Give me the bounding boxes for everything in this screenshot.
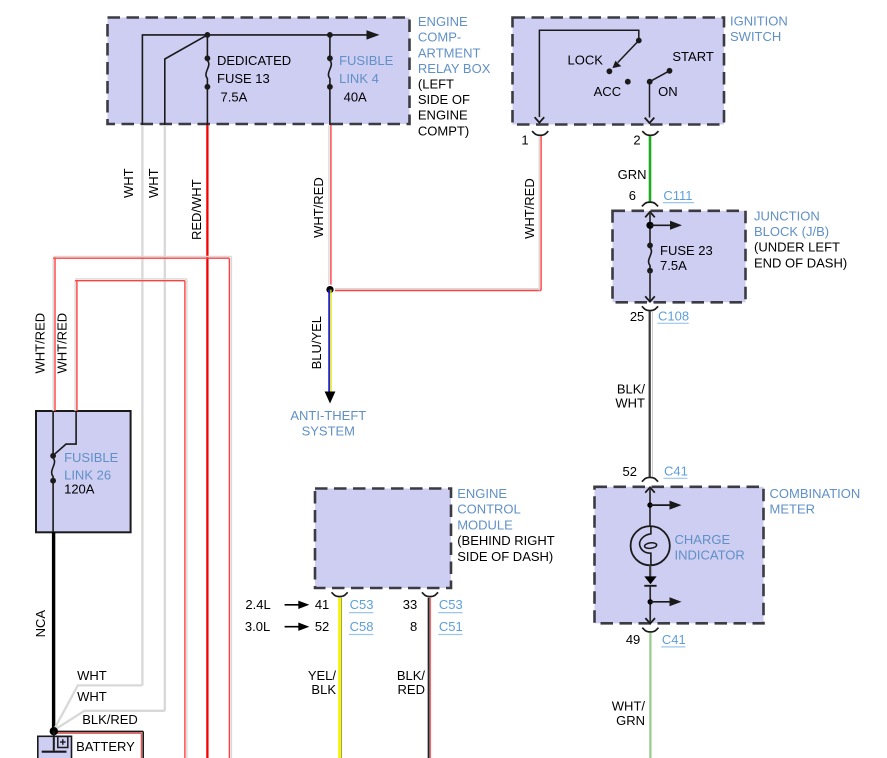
wire WHT/GRN <box>649 633 651 758</box>
wire WHT/RED far-left branch B <box>75 279 187 758</box>
label BLK/WHT <box>615 382 645 411</box>
svg-text:40A: 40A <box>344 90 367 105</box>
svg-text:COMPT): COMPT) <box>418 123 469 138</box>
svg-text:INDICATOR: INDICATOR <box>675 548 745 563</box>
svg-text:SIDE OF DASH): SIDE OF DASH) <box>457 549 553 564</box>
svg-text:BATTERY: BATTERY <box>76 739 135 754</box>
label COMBINATION METER heading <box>770 486 861 517</box>
wire meter vertical to bulb <box>649 487 651 527</box>
svg-text:BLOCK (J/B): BLOCK (J/B) <box>754 224 829 239</box>
svg-text:DEDICATED: DEDICATED <box>217 53 291 68</box>
label 2.4L with arrow <box>245 597 309 612</box>
fusible link 26 box <box>36 411 131 532</box>
svg-text:JUNCTION: JUNCTION <box>754 209 820 224</box>
wire bulb to diode <box>649 565 651 577</box>
node bus junction 2 <box>327 32 333 38</box>
svg-text:2: 2 <box>633 133 640 148</box>
label 3.0L with arrow <box>245 619 309 634</box>
svg-text:ENGINE: ENGINE <box>457 486 507 501</box>
contact ON <box>647 79 653 85</box>
svg-text:33: 33 <box>403 597 417 612</box>
svg-text:BLU/YEL: BLU/YEL <box>309 316 324 369</box>
connector C53 link right <box>438 597 462 613</box>
svg-text:25: 25 <box>630 309 644 324</box>
connector C111 link <box>663 188 694 203</box>
wire junction block vertical lower <box>649 271 651 302</box>
wire NCA <box>52 532 55 731</box>
svg-text:WHT: WHT <box>77 689 107 704</box>
connector C53 link left <box>349 597 373 613</box>
arrow up into combination meter (chevron) <box>645 487 655 492</box>
arrow meter tap 1 right <box>650 501 682 510</box>
svg-text:C58: C58 <box>350 619 374 634</box>
svg-text:METER: METER <box>770 501 816 516</box>
node ignition pivot <box>636 38 642 44</box>
wire WHT column 2 <box>164 125 166 711</box>
label JUNCTION BLOCK heading <box>754 209 847 271</box>
label IGNITION SWITCH heading <box>730 14 788 44</box>
wire WHT/RED vertical to ignition pin 1 <box>539 136 541 291</box>
svg-text:WHT: WHT <box>121 168 136 198</box>
svg-text:WHT: WHT <box>146 168 161 198</box>
engine compartment relay box <box>108 18 410 125</box>
svg-text:2.4L: 2.4L <box>245 597 270 612</box>
engine control module box <box>315 489 451 589</box>
svg-text:WHT/RED: WHT/RED <box>311 177 326 238</box>
wire bus in relay box <box>142 35 371 125</box>
arrow junction block tap right <box>650 221 682 230</box>
connector C108 link <box>657 309 689 324</box>
svg-text:SYSTEM: SYSTEM <box>302 424 355 439</box>
wire WHT/RED pair from fusible link 4 <box>329 125 331 290</box>
node bus junction 1 <box>205 32 211 38</box>
connector cup pin 2 <box>642 131 658 135</box>
label FUSE 23 7.5A <box>660 243 713 273</box>
node meter tap 1 <box>647 502 652 507</box>
contact START <box>667 68 673 74</box>
wire diagonal branch to second WHT <box>165 35 208 125</box>
fuse fusible link 4 <box>327 55 333 89</box>
node battery junction <box>50 727 58 735</box>
wire diode to tap 2 <box>649 586 651 622</box>
arrow meter tap 2 right <box>650 597 681 606</box>
arrow up into junction block (chevron) <box>645 212 655 217</box>
svg-text:NCA: NCA <box>33 610 48 638</box>
label ENGINE COMPARTMENT RELAY BOX heading <box>418 14 491 138</box>
label BLK/RED from ECM <box>397 668 426 697</box>
svg-text:7.5A: 7.5A <box>221 90 248 105</box>
arrow BLU/YEL to anti-theft <box>325 392 336 404</box>
svg-text:C53: C53 <box>439 597 463 612</box>
ignition switch box <box>513 18 725 125</box>
svg-text:3.0L: 3.0L <box>245 619 270 634</box>
fuse fusible link 26 <box>50 453 56 484</box>
svg-text:WHT: WHT <box>615 396 645 411</box>
svg-text:C41: C41 <box>664 464 688 479</box>
svg-text:52: 52 <box>315 619 329 634</box>
connector cap above junction block <box>642 202 658 206</box>
wire WHT/RED horizontal to ignition pin 1 <box>329 289 541 291</box>
wire WHT 2 to battery <box>55 711 165 730</box>
node junction block tap <box>646 222 653 229</box>
svg-text:C41: C41 <box>662 632 686 647</box>
charge indicator bulb <box>631 526 670 565</box>
svg-text:YEL/: YEL/ <box>308 668 337 683</box>
svg-text:41: 41 <box>315 597 329 612</box>
wire into fusible link 26 right with jog <box>55 411 76 454</box>
node BLU/YEL junction <box>326 285 335 294</box>
connector cup ECM pin 41 <box>332 592 348 596</box>
wire BLK/WHT <box>650 311 653 477</box>
connector cup ECM pin 33 <box>422 592 438 596</box>
svg-text:ENGINE: ENGINE <box>418 108 468 123</box>
connector C58 link <box>349 619 373 635</box>
label ENGINE CONTROL MODULE heading <box>457 486 555 564</box>
connector C51 link <box>438 619 462 635</box>
wire fusible link 26 out <box>52 481 54 533</box>
svg-text:C111: C111 <box>663 188 692 203</box>
svg-text:RED: RED <box>398 682 425 697</box>
svg-text:FUSIBLE: FUSIBLE <box>64 450 119 465</box>
svg-text:(BEHIND RIGHT: (BEHIND RIGHT <box>457 533 555 548</box>
wire fusible link 4 out <box>329 87 331 125</box>
label FUSIBLE LINK 4 40A <box>339 53 394 105</box>
wire BLU/YEL <box>329 290 331 392</box>
svg-text:ENGINE: ENGINE <box>418 14 468 29</box>
junction block box <box>613 211 746 302</box>
wire fuse13 feed <box>206 35 208 58</box>
label WHT/GRN <box>612 699 646 728</box>
wire fusible link 4 feed <box>329 35 331 58</box>
svg-text:CHARGE: CHARGE <box>675 532 731 547</box>
svg-text:FUSE 13: FUSE 13 <box>217 71 270 86</box>
battery symbol <box>42 731 68 752</box>
svg-text:FUSE 23: FUSE 23 <box>660 243 713 258</box>
svg-text:WHT/RED: WHT/RED <box>522 178 537 239</box>
node meter tap 2 <box>648 599 653 604</box>
svg-text:ACC: ACC <box>594 84 621 99</box>
combination meter box <box>595 487 764 624</box>
svg-text:49: 49 <box>626 632 640 647</box>
svg-text:CONTROL: CONTROL <box>457 502 521 517</box>
wire ignition feed from pin 1 <box>539 30 638 117</box>
svg-text:ON: ON <box>658 84 678 99</box>
connector C41 link top <box>663 464 687 479</box>
svg-text:SIDE OF: SIDE OF <box>418 92 470 107</box>
wire junction block vertical upper <box>649 212 651 246</box>
connector cap above combination meter <box>642 477 658 481</box>
arrow down combination meter exit (chevron) <box>645 618 655 623</box>
wire BLK/RED from ECM <box>429 598 431 758</box>
wire BLK/RED to battery <box>54 731 143 758</box>
label FUSIBLE LINK 26 120A <box>64 450 119 497</box>
svg-text:GRN: GRN <box>616 713 645 728</box>
wire into fusible link 26 left <box>52 411 54 456</box>
wire RED/WHT column <box>206 125 208 758</box>
svg-text:FUSIBLE: FUSIBLE <box>339 53 394 68</box>
contact ACC <box>625 79 631 85</box>
arrow down at pin 2 (chevron) <box>645 118 655 123</box>
svg-text:BLK/: BLK/ <box>617 382 646 397</box>
svg-text:WHT: WHT <box>77 668 107 683</box>
label DEDICATED FUSE 13 7.5A <box>217 53 291 105</box>
svg-text:IGNITION: IGNITION <box>730 14 788 29</box>
label YEL/BLK <box>308 668 337 697</box>
fuse F13 dedicated fuse 13 <box>205 55 211 89</box>
wire WHT 1 to battery <box>54 685 143 730</box>
battery box <box>38 736 72 758</box>
contact LOCK <box>607 68 613 74</box>
svg-text:COMBINATION: COMBINATION <box>770 486 861 501</box>
wire WHT column 1 <box>141 125 143 685</box>
svg-text:(LEFT: (LEFT <box>418 77 454 92</box>
svg-text:LINK 4: LINK 4 <box>339 71 379 86</box>
svg-text:WHT/RED: WHT/RED <box>32 313 47 374</box>
diode D1 <box>644 576 656 585</box>
bus arrowhead <box>367 30 380 39</box>
svg-text:GRN: GRN <box>618 167 647 182</box>
connector cup below junction block <box>642 306 658 310</box>
svg-text:C108: C108 <box>658 309 689 324</box>
wire YEL/BLK <box>340 598 342 758</box>
svg-text:1: 1 <box>521 133 528 148</box>
svg-text:BLK: BLK <box>311 682 336 697</box>
svg-text:120A: 120A <box>64 482 95 497</box>
svg-text:WHT/: WHT/ <box>612 699 646 714</box>
svg-text:8: 8 <box>410 619 417 634</box>
wire ON to pin 2 <box>649 82 651 118</box>
svg-text:COMP-: COMP- <box>418 30 461 45</box>
arrow down junction block exit (chevron) <box>645 296 655 301</box>
svg-text:LOCK: LOCK <box>567 53 603 68</box>
connector cup below combination meter <box>642 628 658 632</box>
svg-text:START: START <box>672 49 713 64</box>
svg-text:52: 52 <box>623 464 637 479</box>
svg-text:ARTMENT: ARTMENT <box>418 45 481 60</box>
label ANTI-THEFT SYSTEM <box>290 408 366 439</box>
svg-text:SWITCH: SWITCH <box>730 29 781 44</box>
svg-text:BLK/: BLK/ <box>397 668 426 683</box>
svg-text:C51: C51 <box>439 619 463 634</box>
svg-text:RED/WHT: RED/WHT <box>189 179 204 240</box>
svg-text:LINK 26: LINK 26 <box>64 467 111 482</box>
svg-text:END OF DASH): END OF DASH) <box>754 255 847 270</box>
wire fuse13 out <box>206 87 208 125</box>
svg-text:ANTI-THEFT: ANTI-THEFT <box>290 408 366 423</box>
wire ignition rotor arrow toward LOCK <box>612 41 638 69</box>
svg-text:MODULE: MODULE <box>457 517 513 532</box>
wire WHT/RED far-left branch A <box>53 256 231 758</box>
arrow down at pin 1 (chevron) <box>535 117 545 122</box>
wire GRN <box>649 136 652 202</box>
connector cup pin 1 <box>532 131 548 135</box>
wire ON to START <box>650 71 670 82</box>
svg-text:(UNDER LEFT: (UNDER LEFT <box>754 240 840 255</box>
svg-text:WHT/RED: WHT/RED <box>55 313 70 374</box>
fuse F23 <box>647 243 653 274</box>
svg-text:RELAY BOX: RELAY BOX <box>418 61 491 76</box>
svg-text:7.5A: 7.5A <box>660 258 687 273</box>
connector C41 link bottom <box>661 632 685 647</box>
label CHARGE INDICATOR <box>675 532 745 562</box>
svg-text:6: 6 <box>629 188 636 203</box>
svg-text:C53: C53 <box>350 597 374 612</box>
svg-text:BLK/RED: BLK/RED <box>82 712 138 727</box>
